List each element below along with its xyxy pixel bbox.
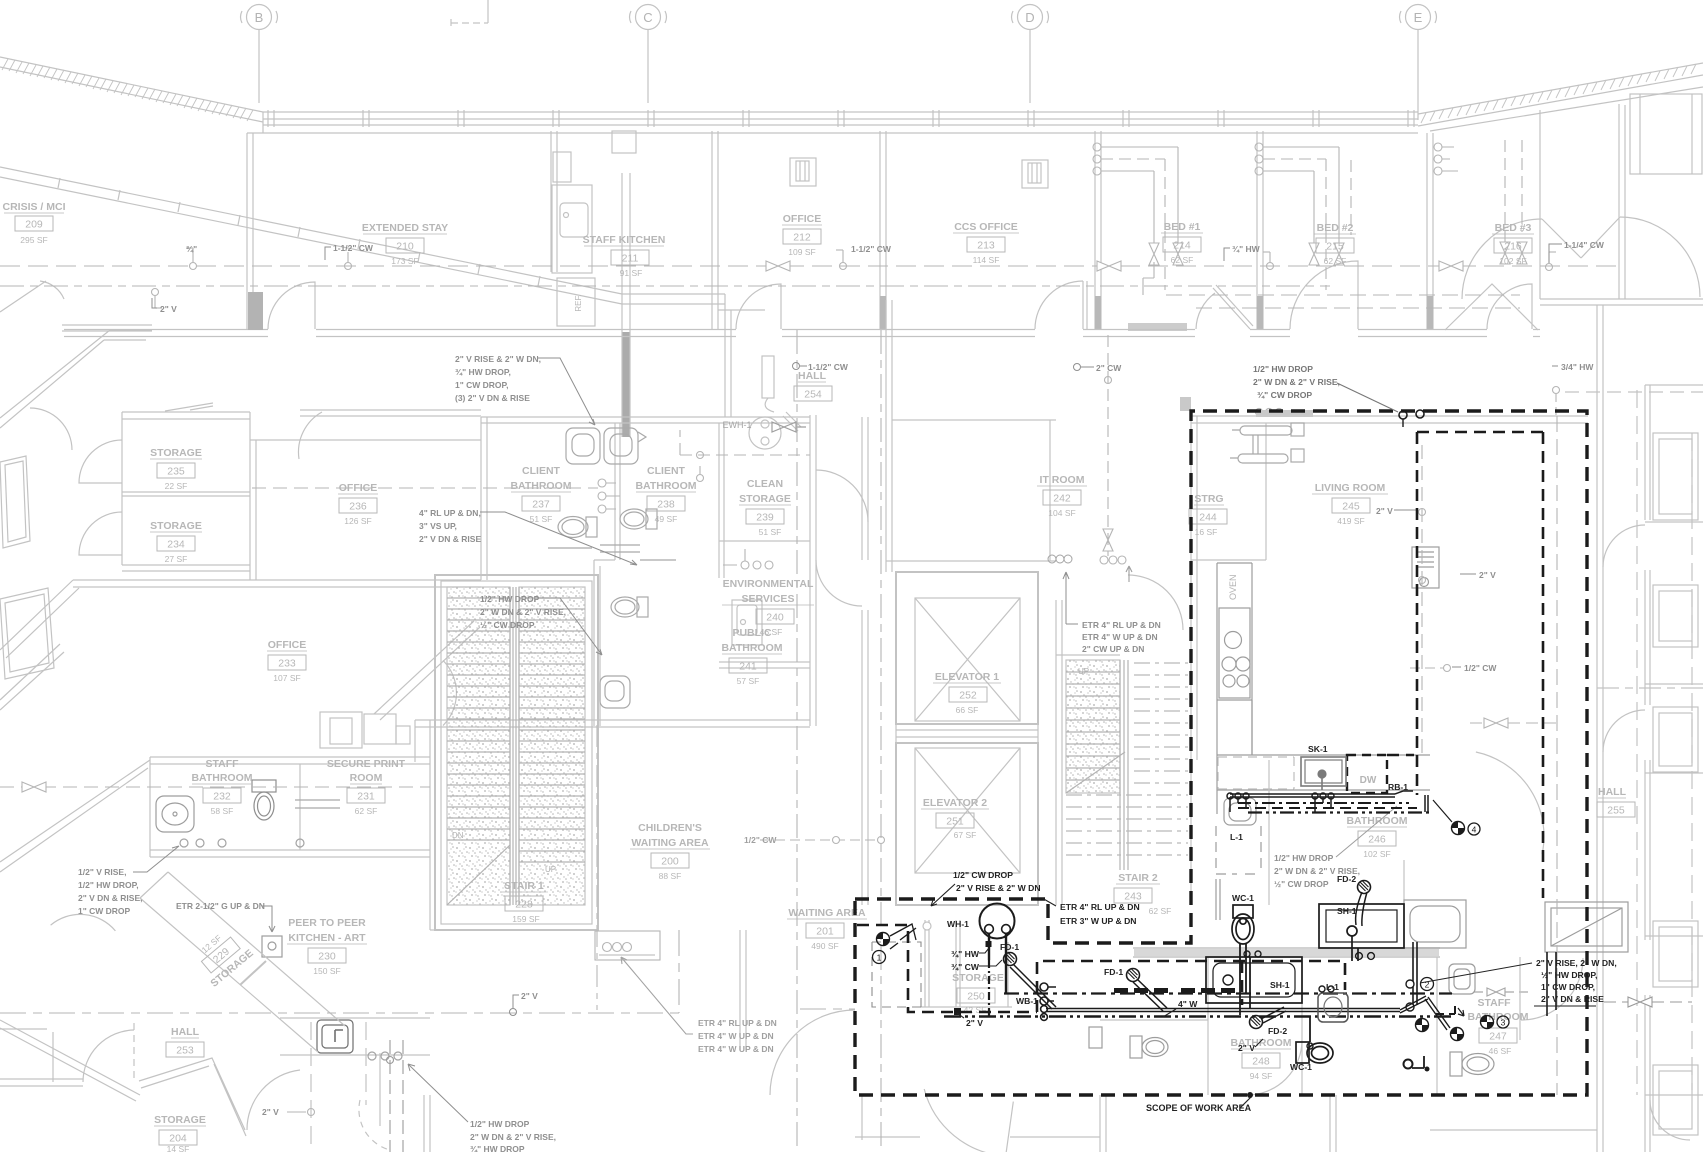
svg-text:255: 255 bbox=[1607, 805, 1625, 817]
staff bathroom toilet bbox=[252, 780, 276, 820]
svg-text:SH-1: SH-1 bbox=[1337, 906, 1357, 916]
room label STORAGE 229 rotated bbox=[188, 923, 255, 989]
room label BED #1 214 bbox=[1161, 221, 1203, 265]
floor drain FD-1 b bbox=[1127, 969, 1168, 1012]
hall 253 walls and left angled bbox=[0, 760, 150, 1101]
note: 1/2 CW DROP waiting bbox=[931, 870, 1041, 906]
svg-text:FD-1: FD-1 bbox=[1104, 967, 1123, 977]
room label CRISIS/MCI 209 bbox=[2, 201, 65, 245]
room label IT ROOM 242 bbox=[1037, 474, 1087, 518]
room 247 lavatory bbox=[1449, 964, 1475, 994]
svg-text:241: 241 bbox=[739, 661, 757, 673]
svg-text:BATHROOM: BATHROOM bbox=[510, 480, 571, 492]
svg-text:(3) 2" V DN & RISE: (3) 2" V DN & RISE bbox=[455, 393, 530, 403]
room label HALL 255 bbox=[1597, 786, 1635, 817]
svg-text:251: 251 bbox=[946, 816, 964, 828]
svg-text:62 SF: 62 SF bbox=[1149, 906, 1172, 916]
clean storage / env walls bbox=[719, 541, 810, 668]
svg-text:1/2" HW DROP,: 1/2" HW DROP, bbox=[78, 880, 139, 890]
wall office236 top bbox=[300, 410, 481, 416]
bottom right walls bbox=[1330, 957, 1597, 1152]
svg-text:2" V: 2" V bbox=[966, 1018, 983, 1028]
kitchen sink SK-1 bbox=[1301, 757, 1346, 790]
svg-text:OFFICE: OFFICE bbox=[268, 639, 307, 651]
svg-text:½" CW DROP: ½" CW DROP bbox=[480, 620, 535, 630]
svg-text:240: 240 bbox=[766, 612, 784, 624]
svg-text:OVEN: OVEN bbox=[1228, 574, 1238, 600]
bottom risers dark-gray dashed verticals bbox=[387, 1040, 404, 1152]
shower SH-1 upper pan bbox=[1319, 904, 1404, 961]
valve on CW main x778 bbox=[766, 261, 790, 271]
bathrooms top wall bbox=[481, 417, 810, 423]
door arc storage 235 bbox=[79, 440, 122, 483]
note: 1/2 HW DROP kitchen gray bbox=[1274, 806, 1397, 889]
svg-text:2" V: 2" V bbox=[1479, 570, 1496, 580]
svg-text:STORAGE: STORAGE bbox=[150, 520, 202, 532]
room label STORAGE 250 bbox=[952, 972, 1004, 1015]
double entry door arcs top right bbox=[1462, 217, 1700, 299]
staff bathroom counter bbox=[295, 800, 340, 808]
right junction pipes near 2 bbox=[1400, 942, 1464, 1072]
riser x1549 bbox=[1546, 252, 1557, 271]
svg-text:B: B bbox=[255, 10, 264, 25]
svg-text:213: 213 bbox=[977, 240, 995, 252]
riser circles IT room bbox=[1100, 556, 1132, 582]
svg-text:2" V: 2" V bbox=[1376, 506, 1393, 516]
svg-text:ETR 4" W UP & DN: ETR 4" W UP & DN bbox=[698, 1031, 774, 1041]
svg-text:½" HW DROP,: ½" HW DROP, bbox=[1541, 970, 1597, 980]
svg-text:200: 200 bbox=[661, 856, 679, 868]
label 2V near wc bbox=[1238, 1039, 1263, 1053]
room label BED #3 216 bbox=[1492, 222, 1534, 266]
floor drain FD-2 upper bbox=[1356, 881, 1371, 927]
svg-text:209: 209 bbox=[25, 219, 43, 231]
svg-text:233: 233 bbox=[278, 658, 296, 670]
pipe from wh area down-left corner jog bbox=[890, 928, 916, 949]
wall bed2|bed3 bbox=[1427, 133, 1433, 330]
svg-text:242: 242 bbox=[1053, 493, 1071, 505]
room label BATHROOM 246 bbox=[1346, 815, 1407, 859]
svg-text:¾" CW: ¾" CW bbox=[951, 962, 980, 972]
svg-text:1-1/4" CW: 1-1/4" CW bbox=[1564, 240, 1605, 250]
svg-text:L-1: L-1 bbox=[1326, 982, 1339, 992]
svg-text:ETR 4" W UP & DN: ETR 4" W UP & DN bbox=[698, 1044, 774, 1054]
toilet public bathroom 241 bbox=[611, 597, 648, 617]
storage 204 door arc bbox=[247, 1070, 300, 1130]
bathroom 246 tub bbox=[1404, 900, 1466, 948]
svg-text:OFFICE: OFFICE bbox=[339, 482, 378, 494]
lav public bathroom bbox=[600, 676, 630, 708]
wheelchair symbol bbox=[1230, 423, 1304, 463]
svg-text:22 SF: 22 SF bbox=[165, 481, 188, 491]
svg-text:91 SF: 91 SF bbox=[620, 268, 643, 278]
benchmark symbol 3a bbox=[1481, 1016, 1494, 1029]
wall office236|237 bbox=[481, 417, 487, 580]
right wing furniture bbox=[1653, 433, 1698, 1135]
corridor arcs near lobby bbox=[816, 470, 868, 522]
svg-text:¾": ¾" bbox=[186, 244, 197, 254]
light dashed vertical x1565 bbox=[1556, 416, 1558, 1095]
svg-text:1-1/2" CW: 1-1/2" CW bbox=[333, 243, 374, 253]
left tilted casework lower bbox=[0, 588, 54, 679]
svg-text:D: D bbox=[1025, 10, 1034, 25]
LIGHT-GRAY-LAYER bbox=[0, 0, 1703, 459]
svg-text:216: 216 bbox=[1504, 241, 1522, 253]
1/2 CW leader to lobby bbox=[760, 839, 878, 841]
riser circles waiting area bbox=[595, 931, 660, 960]
svg-text:1: 1 bbox=[877, 953, 882, 963]
svg-text:2" V RISE, 2" W DN,: 2" V RISE, 2" W DN, bbox=[1536, 958, 1617, 968]
svg-text:252: 252 bbox=[959, 690, 977, 702]
waiting area west wall bbox=[740, 930, 746, 1050]
staff bathroom lavatory bbox=[156, 796, 194, 832]
door arc bed3 bbox=[1487, 284, 1532, 329]
svg-text:295 SF: 295 SF bbox=[20, 235, 47, 245]
room label CLIENT BATHROOM 238 bbox=[635, 465, 696, 524]
door leaf storage 235 bbox=[165, 403, 213, 411]
vertical pipes right of shower bbox=[1547, 952, 1556, 1016]
note: ETR 2-1/2 G bbox=[176, 901, 275, 932]
room label BED #2 215 bbox=[1314, 222, 1356, 266]
grid bubble B bbox=[241, 5, 278, 104]
svg-text:62 SF: 62 SF bbox=[1171, 255, 1194, 265]
riser lobby x881 vertical bbox=[880, 330, 882, 1152]
grid bubble C bbox=[630, 5, 667, 104]
svg-text:1" CW DROP,: 1" CW DROP, bbox=[455, 380, 508, 390]
svg-text:CCS OFFICE: CCS OFFICE bbox=[954, 221, 1018, 233]
svg-text:STORAGE: STORAGE bbox=[739, 493, 791, 505]
svg-text:236: 236 bbox=[349, 501, 367, 513]
svg-text:4" W: 4" W bbox=[1178, 999, 1198, 1009]
door arc bottom center bbox=[917, 1089, 1014, 1152]
svg-text:212: 212 bbox=[793, 232, 811, 244]
IT room walls bbox=[886, 420, 1056, 561]
corridor wall x810 bbox=[810, 415, 816, 726]
svg-text:ELEVATOR 2: ELEVATOR 2 bbox=[923, 797, 987, 809]
grab bars 237 bbox=[548, 548, 676, 560]
svg-text:BED #2: BED #2 bbox=[1317, 222, 1354, 234]
svg-text:HALL: HALL bbox=[1598, 786, 1627, 798]
bed1 branch piping bbox=[1093, 143, 1183, 295]
room label PEER TO PEER KITCHEN ART 230 bbox=[287, 917, 367, 976]
dashed branch y540 clean storage bbox=[680, 430, 810, 459]
3/4 HW riser right y390 bbox=[1553, 387, 1560, 417]
room label LIVING ROOM 245 bbox=[1312, 482, 1388, 526]
svg-text:STAFF: STAFF bbox=[1477, 997, 1511, 1009]
note: 1/2 HW drop at stair1 bbox=[480, 594, 602, 655]
wall 213|bed1 bbox=[1095, 131, 1101, 330]
svg-text:BATHROOM: BATHROOM bbox=[635, 480, 696, 492]
svg-text:½" CW DROP: ½" CW DROP bbox=[1274, 879, 1329, 889]
svg-text:2" V RISE & 2" W DN,: 2" V RISE & 2" W DN, bbox=[455, 354, 541, 364]
living room riser 1/2"CW bbox=[1410, 665, 1451, 672]
svg-text:1/2" CW DROP: 1/2" CW DROP bbox=[953, 870, 1013, 880]
note: ETR stair2 top bbox=[1048, 555, 1161, 654]
pipe: sanitary dash-dot main bbox=[1004, 992, 1452, 994]
svg-text:228: 228 bbox=[515, 899, 533, 911]
storage 229 angled room bbox=[140, 872, 345, 1052]
riser x193 bbox=[186, 248, 197, 270]
top-center roof notch bbox=[451, 0, 488, 26]
water heater WH-1 bbox=[980, 904, 1015, 948]
dashed branch bathrooms y488 bbox=[252, 487, 598, 489]
svg-text:62 SF: 62 SF bbox=[1324, 256, 1347, 266]
svg-text:UP: UP bbox=[1078, 667, 1089, 676]
note: ETR 4 RL waiting bbox=[698, 1018, 777, 1054]
left sloped exterior wall bbox=[0, 167, 725, 304]
kitchen sink dark-gray bbox=[317, 1020, 353, 1053]
svg-text:214: 214 bbox=[1173, 240, 1191, 252]
room label STRG 244 bbox=[1189, 493, 1227, 537]
bottom wall left bbox=[0, 1029, 430, 1152]
svg-text:STAFF: STAFF bbox=[205, 758, 239, 770]
svg-text:419 SF: 419 SF bbox=[1337, 516, 1364, 526]
left top wall bits bbox=[0, 281, 152, 331]
note: 2V rise at client bathrooms bbox=[455, 354, 595, 425]
svg-text:2" V: 2" V bbox=[521, 991, 538, 1001]
kitchen tall counter (living unit) bbox=[1217, 563, 1430, 814]
svg-text:C: C bbox=[643, 10, 652, 25]
bathtub SH-1 lower bbox=[1206, 951, 1302, 1009]
note: ETR 4 RL stair2 bbox=[1042, 898, 1140, 926]
elevator shaft divider bbox=[896, 724, 1038, 743]
svg-text:4: 4 bbox=[1472, 825, 1477, 835]
note: 1/2 V rise staff bathroom bbox=[78, 846, 179, 916]
bed3 branch piping bbox=[1434, 140, 1527, 264]
room label OFFICE 236 bbox=[338, 482, 378, 526]
under-counter dashed cabinets bbox=[1218, 757, 1294, 789]
svg-text:42 SF: 42 SF bbox=[964, 1005, 987, 1015]
recessed unit office212 bbox=[790, 158, 816, 186]
riser on scope top edge bbox=[1399, 410, 1424, 427]
bottom 2V dashes bbox=[287, 1109, 315, 1116]
svg-text:215: 215 bbox=[1326, 241, 1344, 253]
wall 209|210 bbox=[612, 131, 636, 437]
svg-text:ENVIRONMENTAL: ENVIRONMENTAL bbox=[723, 578, 814, 590]
room 247 toilet light part bbox=[1450, 1052, 1494, 1076]
light dashed centerline bottom bbox=[0, 930, 855, 1013]
svg-text:1/2" CW: 1/2" CW bbox=[744, 835, 777, 845]
note: 1-1/2 CW hall bbox=[793, 362, 849, 372]
wall bed1|bed2 bbox=[1257, 131, 1263, 330]
svg-text:254: 254 bbox=[804, 389, 822, 401]
svg-text:ETR 2-1/2" G UP & DN: ETR 2-1/2" G UP & DN bbox=[176, 901, 265, 911]
svg-text:1-1/2" CW: 1-1/2" CW bbox=[851, 244, 892, 254]
wall 209 right stub bbox=[247, 133, 253, 330]
benchmark symbol 2a bbox=[1416, 1019, 1429, 1032]
room label STORAGE 234 bbox=[150, 520, 202, 564]
DARK-LAYER bbox=[855, 410, 1587, 1098]
wall poché bits bedrooms bbox=[880, 296, 1433, 331]
svg-text:WH-1: WH-1 bbox=[947, 919, 969, 929]
room label HALL 253 bbox=[166, 1026, 204, 1057]
svg-text:WAITING AREA: WAITING AREA bbox=[631, 837, 709, 849]
svg-text:234: 234 bbox=[167, 539, 185, 551]
svg-text:LIVING ROOM: LIVING ROOM bbox=[1315, 482, 1386, 494]
svg-text:SCOPE OF WORK AREA: SCOPE OF WORK AREA bbox=[1146, 1103, 1252, 1113]
right wing room walls bbox=[1645, 385, 1703, 1095]
room label STORAGE 204 bbox=[154, 1114, 206, 1152]
pipe: domestic CW main (dashed, top corridor) bbox=[0, 265, 1618, 267]
svg-text:L-1: L-1 bbox=[1230, 832, 1243, 842]
label SCOPE OF WORK AREA bbox=[1146, 1097, 1252, 1113]
note: 3/4 HW right bbox=[1552, 362, 1594, 372]
vestibule angled walls bbox=[1445, 284, 1538, 330]
3/4 HW riser clean storage bbox=[697, 466, 704, 482]
svg-text:SH-1: SH-1 bbox=[1270, 980, 1290, 990]
svg-text:230: 230 bbox=[318, 951, 336, 963]
svg-text:BATHROOM: BATHROOM bbox=[1467, 1011, 1528, 1023]
riser x843 bbox=[836, 250, 847, 270]
svg-text:BED #3: BED #3 bbox=[1495, 222, 1532, 234]
scope inner dashed box kitchen-lower bbox=[857, 755, 1414, 1012]
svg-text:2" V RISE & 2" W DN: 2" V RISE & 2" W DN bbox=[956, 883, 1041, 893]
circled number 2 bbox=[1421, 978, 1434, 991]
room label CHILDRENS WAITING AREA 200 bbox=[630, 822, 710, 881]
svg-text:1/2" HW DROP: 1/2" HW DROP bbox=[1253, 364, 1313, 374]
wall-mounted unit + EWH in hall alcove bbox=[749, 356, 781, 449]
svg-text:1/2" HW DROP: 1/2" HW DROP bbox=[470, 1119, 530, 1129]
svg-text:248: 248 bbox=[1252, 1056, 1270, 1068]
top rooms: top wall bbox=[247, 132, 1418, 134]
svg-text:94 SF: 94 SF bbox=[1250, 1071, 1273, 1081]
svg-text:SECURE PRINT: SECURE PRINT bbox=[327, 758, 406, 770]
note: 2V living2 bbox=[1460, 570, 1496, 580]
svg-text:CLIENT: CLIENT bbox=[647, 465, 686, 477]
wall 210|211 + kitchen counter bbox=[551, 131, 595, 326]
svg-text:STORAGE: STORAGE bbox=[150, 447, 202, 459]
door arc living bottom bbox=[1458, 752, 1560, 854]
bathroom 246 walls gray bbox=[1133, 760, 1440, 957]
kitchen pipe bundle circles bbox=[1227, 793, 1334, 799]
svg-text:2" CW UP & DN: 2" CW UP & DN bbox=[1082, 644, 1144, 654]
wall 211|212 bbox=[712, 131, 718, 330]
shower room 247 bbox=[1545, 902, 1628, 952]
svg-text:RB-1: RB-1 bbox=[1388, 782, 1408, 792]
svg-text:2" CW: 2" CW bbox=[1096, 363, 1122, 373]
svg-text:¾" HW DROP,: ¾" HW DROP, bbox=[455, 367, 511, 377]
riser trio env services bbox=[723, 549, 773, 569]
room label 247 bbox=[1467, 997, 1528, 1056]
hall波 riser x881 circles bbox=[878, 837, 885, 844]
scope of work boundary polygon bbox=[855, 411, 1587, 1095]
door arc office 233 bbox=[410, 660, 475, 725]
svg-text:1" CW DROP: 1" CW DROP bbox=[78, 906, 131, 916]
benchmark symbol 4 bbox=[1452, 822, 1465, 835]
routing dashed rect storage 250 bbox=[872, 942, 921, 1007]
door arc bathroom 248 bbox=[1247, 1040, 1302, 1095]
heavy pipe dashes overlay bbox=[1114, 988, 1235, 993]
svg-text:243: 243 bbox=[1124, 891, 1142, 903]
svg-text:ROOM: ROOM bbox=[350, 772, 383, 784]
valve on CW main x1451 bbox=[1439, 261, 1463, 271]
svg-text:232: 232 bbox=[213, 791, 231, 803]
svg-text:239: 239 bbox=[756, 512, 774, 524]
waiting area / storage 250 walls bbox=[920, 920, 1012, 1007]
room label BATHROOM 248 bbox=[1230, 1037, 1291, 1081]
bottom risers verticals bbox=[310, 1022, 312, 1152]
svg-text:14 SF: 14 SF bbox=[167, 1144, 190, 1152]
svg-text:150 SF: 150 SF bbox=[313, 966, 340, 976]
grid bubble D bbox=[1012, 5, 1049, 104]
room label CLEAN STORAGE 239 bbox=[739, 478, 791, 537]
leader to benchmark 4 bbox=[1433, 800, 1452, 822]
note: 1-1/2 CW left bbox=[325, 243, 374, 260]
svg-text:66 SF: 66 SF bbox=[956, 705, 979, 715]
left canopy hatch band bbox=[0, 57, 263, 133]
svg-text:CHILDREN'S: CHILDREN'S bbox=[638, 822, 702, 834]
svg-text:ELEVATOR 1: ELEVATOR 1 bbox=[935, 671, 999, 683]
wall 237|238 bbox=[615, 423, 620, 560]
pipes at WB-1 bbox=[1048, 987, 1056, 1001]
right wing pipe dashed verticals bbox=[1636, 390, 1638, 1095]
svg-text:SERVICES: SERVICES bbox=[742, 593, 795, 605]
svg-text:2" V: 2" V bbox=[1238, 1043, 1255, 1053]
note: 2V near stair1 bbox=[510, 991, 539, 1016]
bathroom 248 lav bbox=[1089, 1027, 1102, 1048]
svg-text:BATHROOM: BATHROOM bbox=[721, 642, 782, 654]
label 3/4 HW CW bbox=[951, 948, 1002, 972]
corridor wall x862 bbox=[862, 417, 868, 905]
svg-text:UP: UP bbox=[545, 865, 556, 874]
note: 1/2 CW living bbox=[1452, 663, 1497, 673]
pipe: 2"CW riser x1118 bbox=[1103, 335, 1113, 556]
valve right wing y1010 bbox=[1604, 997, 1692, 1007]
circled number 1 bbox=[873, 951, 886, 964]
svg-text:3" VS UP,: 3" VS UP, bbox=[419, 521, 457, 531]
svg-text:109 SF: 109 SF bbox=[788, 247, 815, 257]
wall 238|239 bbox=[719, 423, 724, 578]
svg-text:KITCHEN - ART: KITCHEN - ART bbox=[288, 932, 366, 944]
svg-text:¾" HW: ¾" HW bbox=[951, 949, 980, 959]
svg-text:EXTENDED STAY: EXTENDED STAY bbox=[362, 222, 448, 234]
waiting area 201 door arc bbox=[770, 1010, 855, 1095]
note: 2 CW riser bbox=[1074, 363, 1123, 373]
svg-text:STORAGE: STORAGE bbox=[154, 1114, 206, 1126]
riser x1270 bbox=[1263, 252, 1274, 270]
svg-text:204: 204 bbox=[169, 1133, 187, 1145]
entry vestibule top right bbox=[1540, 94, 1703, 305]
alcove chamfer bbox=[783, 412, 801, 431]
svg-text:46 SF: 46 SF bbox=[1489, 1046, 1512, 1056]
svg-text:57 SF: 57 SF bbox=[737, 676, 760, 686]
svg-text:2" V DN & RISE,: 2" V DN & RISE, bbox=[78, 893, 143, 903]
door arc storage 234 bbox=[79, 512, 122, 555]
svg-text:ETR 4" RL UP & DN: ETR 4" RL UP & DN bbox=[1060, 902, 1140, 912]
room label PUBLIC BATHROOM 241 bbox=[721, 627, 782, 686]
door arc room 209 bbox=[268, 282, 315, 329]
svg-text:SK-1: SK-1 bbox=[1308, 744, 1328, 754]
recessed unit ccs office bbox=[1022, 160, 1048, 188]
svg-text:BATHROOM: BATHROOM bbox=[191, 772, 252, 784]
svg-text:4" RL UP & DN,: 4" RL UP & DN, bbox=[419, 508, 481, 518]
svg-text:102 SF: 102 SF bbox=[1499, 256, 1526, 266]
svg-text:3/4" HW: 3/4" HW bbox=[1561, 362, 1594, 372]
pipe: vent dash-dot-dot main bbox=[944, 1015, 1452, 1018]
office 233 left angled walls bbox=[0, 621, 480, 762]
door arc bed1 bbox=[1196, 293, 1215, 329]
svg-text:49 SF: 49 SF bbox=[655, 514, 678, 524]
svg-text:CLEAN: CLEAN bbox=[747, 478, 783, 490]
right wing corridor walls bbox=[1597, 305, 1650, 1152]
room label STAFF KITCHEN 211 bbox=[583, 234, 666, 278]
circled number 4 bbox=[1468, 823, 1480, 835]
room label ELEVATOR 1 252 bbox=[933, 671, 1001, 715]
floor drain FD-2 lower bbox=[1250, 1007, 1287, 1029]
svg-text:114 SF: 114 SF bbox=[973, 255, 1000, 265]
riser 2"V x155 bbox=[152, 289, 163, 309]
benchmark symbol 3b bbox=[1451, 1028, 1464, 1041]
